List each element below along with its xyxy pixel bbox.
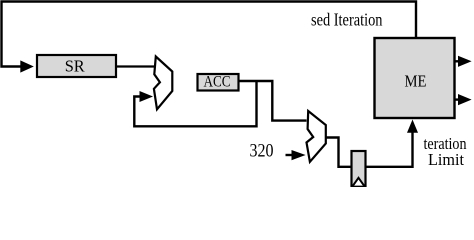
wire: constant 320 into mux M2 lower input: [286, 154, 294, 156]
node arrowhead output 2: [458, 94, 472, 105]
svg-text:SR: SR: [65, 56, 85, 75]
wire ACC output to mux M2 upper input: [239, 81, 307, 121]
svg-text:ACC: ACC: [204, 73, 231, 91]
clock marker on register: [353, 178, 364, 186]
wire: iteration count feedback from ME top to SR input: [2, 2, 417, 67]
svg-text:320: 320: [250, 140, 274, 161]
register SR: [37, 55, 116, 77]
wire: accumulator feedback loop to mux M1 lower input: [134, 81, 256, 126]
node arrowhead into SR: [20, 60, 34, 72]
wire ME output 1: [455, 60, 460, 62]
svg-text:sed Iteration: sed Iteration: [311, 10, 383, 30]
register (pipeline delay): [352, 151, 366, 186]
wire register output to ME iteration limit input: [366, 131, 413, 167]
node arrowhead output 1: [458, 56, 472, 67]
wire SR to mux M1 upper input: [117, 65, 155, 67]
wire ME output 2: [455, 98, 460, 100]
block ME (motion estimation): [375, 38, 455, 118]
node arrowhead into mux M2 lower input: [292, 150, 306, 160]
svg-text:ME: ME: [405, 71, 427, 90]
mux M2: [307, 111, 326, 162]
node arrowhead into mux M1 lower input: [140, 91, 154, 102]
svg-text:Limit: Limit: [428, 150, 464, 169]
mux M1: [154, 57, 172, 110]
wire mux M2 output to register: [326, 138, 351, 167]
node arrowhead into ME bottom: [407, 120, 418, 133]
accumulator ACC: [198, 74, 239, 91]
